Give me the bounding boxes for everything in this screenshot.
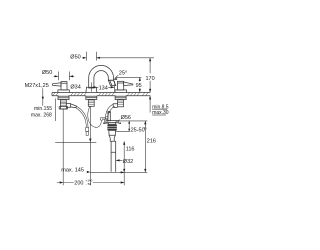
- svg-text:Ø32: Ø32: [123, 159, 133, 165]
- svg-text:216: 216: [147, 138, 156, 144]
- svg-text:min.155: min.155: [34, 106, 52, 112]
- svg-text:116: 116: [126, 147, 135, 153]
- svg-text:Ø50: Ø50: [70, 54, 80, 60]
- svg-text:25°: 25°: [119, 71, 127, 77]
- svg-text:200: 200: [74, 180, 83, 186]
- svg-text:Ø56: Ø56: [121, 115, 131, 121]
- svg-text:- 50: - 50: [86, 182, 92, 186]
- svg-text:max. 268: max. 268: [31, 112, 52, 118]
- svg-text:95: 95: [136, 83, 142, 89]
- svg-text:170: 170: [146, 76, 155, 82]
- svg-text:M27x1,25: M27x1,25: [25, 83, 49, 89]
- svg-text:134: 134: [99, 85, 108, 91]
- svg-text:Ø34: Ø34: [70, 85, 80, 91]
- svg-text:25-50: 25-50: [131, 128, 145, 134]
- svg-text:max. 145: max. 145: [61, 168, 84, 174]
- svg-text:Ø50: Ø50: [42, 70, 52, 76]
